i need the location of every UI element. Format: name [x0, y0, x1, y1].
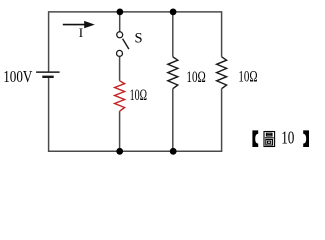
figure caption left bracket	[252, 130, 258, 147]
switch S top contact	[117, 32, 123, 38]
node C (bottom junction, switch branch)	[116, 148, 123, 155]
wire middle branch lower	[119, 111, 121, 151]
node B (top junction, middle resistor branch)	[170, 9, 177, 16]
figure caption right bracket	[303, 130, 309, 147]
switch S blade	[123, 39, 129, 49]
svg-text:10Ω: 10Ω	[130, 87, 147, 104]
wire second branch lower	[172, 89, 174, 152]
svg-text:10Ω: 10Ω	[238, 69, 257, 86]
wire middle branch upper	[119, 12, 121, 32]
svg-text:100V: 100V	[3, 67, 32, 86]
wire bottom	[49, 150, 222, 152]
svg-text:10Ω: 10Ω	[186, 69, 205, 86]
wire second branch upper	[172, 12, 174, 57]
resistor R2 10 ohm	[168, 57, 178, 89]
resistor R1 (red) 10 ohm	[115, 81, 125, 111]
svg-text:I: I	[79, 25, 83, 40]
svg-text:S: S	[135, 31, 143, 47]
wire middle branch between switch and resistor	[119, 57, 121, 81]
switch S bottom contact	[117, 50, 123, 56]
wire left lower (from battery)	[48, 77, 50, 152]
node A (top junction, switch branch)	[117, 9, 124, 16]
current arrow	[63, 21, 95, 28]
resistor R3 10 ohm	[217, 57, 227, 89]
battery V1 long plate	[36, 71, 60, 73]
figure caption glyph tu (picture)	[264, 132, 275, 147]
svg-text:10: 10	[281, 128, 294, 148]
wire top	[49, 11, 222, 13]
node D (bottom junction, middle resistor branch)	[170, 148, 177, 155]
wire right branch upper	[221, 11, 223, 57]
battery V1 short plate	[42, 76, 53, 78]
wire left upper (to battery)	[48, 11, 50, 72]
wire right branch lower	[221, 89, 223, 152]
